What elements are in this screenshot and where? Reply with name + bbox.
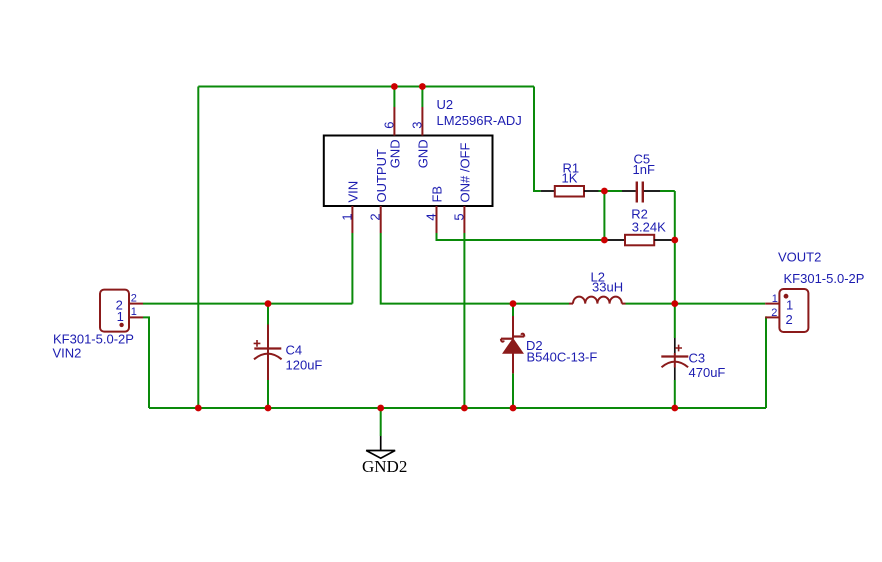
- svg-text:3: 3: [410, 121, 425, 128]
- svg-text:1: 1: [772, 293, 778, 305]
- wire D2 bottom lead: [512, 373, 514, 408]
- svg-text:1: 1: [131, 306, 137, 318]
- wire VIN row: [143, 303, 352, 305]
- node junction D2 top: [510, 300, 517, 307]
- pin 3 stub: [421, 107, 423, 136]
- svg-text:470uF: 470uF: [689, 365, 726, 380]
- svg-text:4: 4: [424, 213, 439, 220]
- wire right vertical to R1: [534, 87, 541, 192]
- wire C5 right segment: [660, 190, 675, 192]
- IC U2 rectangle: [324, 136, 493, 207]
- node junction C4 top: [265, 300, 272, 307]
- node junction top pin6: [391, 83, 398, 90]
- wire pin5 to ground row: [463, 233, 465, 408]
- wire GND2 stem green: [380, 408, 382, 436]
- node junction C3 bottom: [671, 405, 678, 412]
- svg-text:C3: C3: [689, 351, 706, 366]
- wire C3 top lead: [674, 304, 676, 338]
- svg-text:FB: FB: [430, 186, 445, 203]
- connector VIN2 KF301-5.0-2P: [100, 290, 143, 332]
- wire pin3 top: [421, 87, 423, 108]
- svg-text:1: 1: [117, 309, 124, 324]
- wire pin6 top: [393, 87, 395, 108]
- inductor L2: [569, 297, 626, 304]
- svg-text:2: 2: [131, 293, 137, 305]
- capacitor C3 polarized: [661, 338, 688, 380]
- svg-text:LM2596R-ADJ: LM2596R-ADJ: [437, 113, 522, 128]
- svg-text:VOUT2: VOUT2: [778, 250, 821, 265]
- svg-text:120uF: 120uF: [286, 358, 323, 373]
- resistor R1: [541, 186, 599, 197]
- node junction R2 right: [671, 237, 678, 244]
- wire pin1 VIN drop: [351, 233, 353, 304]
- pin 6 stub: [393, 107, 395, 136]
- svg-text:GND: GND: [388, 139, 403, 168]
- svg-text:2: 2: [368, 213, 383, 220]
- wire SW row right of L2: [626, 303, 766, 305]
- IC U2 LM2596R-ADJ: [324, 136, 493, 207]
- svg-text:2: 2: [786, 312, 793, 327]
- svg-text:3.24K: 3.24K: [632, 220, 666, 235]
- ground GND2 symbol: [366, 436, 395, 458]
- node junction D2 bottom: [510, 405, 517, 412]
- wire C5 left segment: [599, 190, 623, 192]
- pin 5 stub: [463, 206, 465, 233]
- node junction top pin3: [419, 83, 426, 90]
- wire C4 bottom lead: [267, 380, 269, 408]
- svg-text:5: 5: [451, 213, 466, 220]
- connector VOUT2 KF301-5.0-2P: [765, 289, 808, 332]
- svg-text:1nF: 1nF: [633, 162, 655, 177]
- wire top GND bus: [198, 86, 534, 88]
- capacitor C5: [622, 182, 660, 203]
- svg-text:VIN2: VIN2: [53, 346, 82, 361]
- wire bottom GND row: [149, 407, 766, 409]
- svg-text:1K: 1K: [562, 171, 578, 186]
- node junction FB-R2 left: [601, 237, 608, 244]
- svg-text:1: 1: [339, 213, 354, 220]
- svg-text:2: 2: [771, 307, 777, 319]
- node junction VOUT row: [671, 300, 678, 307]
- node junction R1-C5: [601, 188, 608, 195]
- svg-text:GND: GND: [416, 139, 431, 168]
- wire node R1-C5-FB junction vertical: [603, 191, 605, 240]
- svg-text:ON# /OFF: ON# /OFF: [458, 142, 473, 202]
- node junction pin5 bottom: [461, 405, 468, 412]
- pin 1 stub: [351, 206, 353, 233]
- wire FB row: [437, 233, 605, 240]
- wire C4 top lead: [267, 304, 269, 325]
- capacitor C4 polarized: [254, 325, 282, 381]
- wire D2 top lead: [512, 304, 514, 316]
- resistor R2: [604, 235, 671, 246]
- svg-text:6: 6: [382, 121, 397, 128]
- svg-text:VIN: VIN: [346, 181, 361, 203]
- wire VOUT2 pin2 drop: [764, 317, 767, 408]
- node junction C4 bottom: [265, 405, 272, 412]
- svg-text:U2: U2: [437, 97, 454, 112]
- wire C5 right to VOUT vertical: [674, 191, 676, 304]
- wire left vertical GND: [197, 87, 199, 409]
- wire VIN2 pin1 drop: [143, 317, 149, 408]
- pin 4 stub: [436, 206, 438, 233]
- node junction bottom left vertical: [195, 405, 202, 412]
- node junction GND2 stem: [377, 405, 384, 412]
- svg-text:C4: C4: [286, 343, 303, 358]
- svg-text:1: 1: [786, 298, 793, 313]
- svg-text:KF301-5.0-2P: KF301-5.0-2P: [53, 332, 134, 347]
- diode D2 schottky: [501, 316, 524, 373]
- svg-text:GND2: GND2: [362, 457, 407, 476]
- wire C3 bottom lead: [674, 380, 676, 408]
- svg-text:33uH: 33uH: [592, 280, 623, 295]
- svg-text:KF301-5.0-2P: KF301-5.0-2P: [784, 271, 865, 286]
- pin 2 stub: [380, 206, 382, 233]
- wire pin2 OUTPUT to SW row: [381, 233, 569, 304]
- svg-text:B540C-13-F: B540C-13-F: [527, 350, 598, 365]
